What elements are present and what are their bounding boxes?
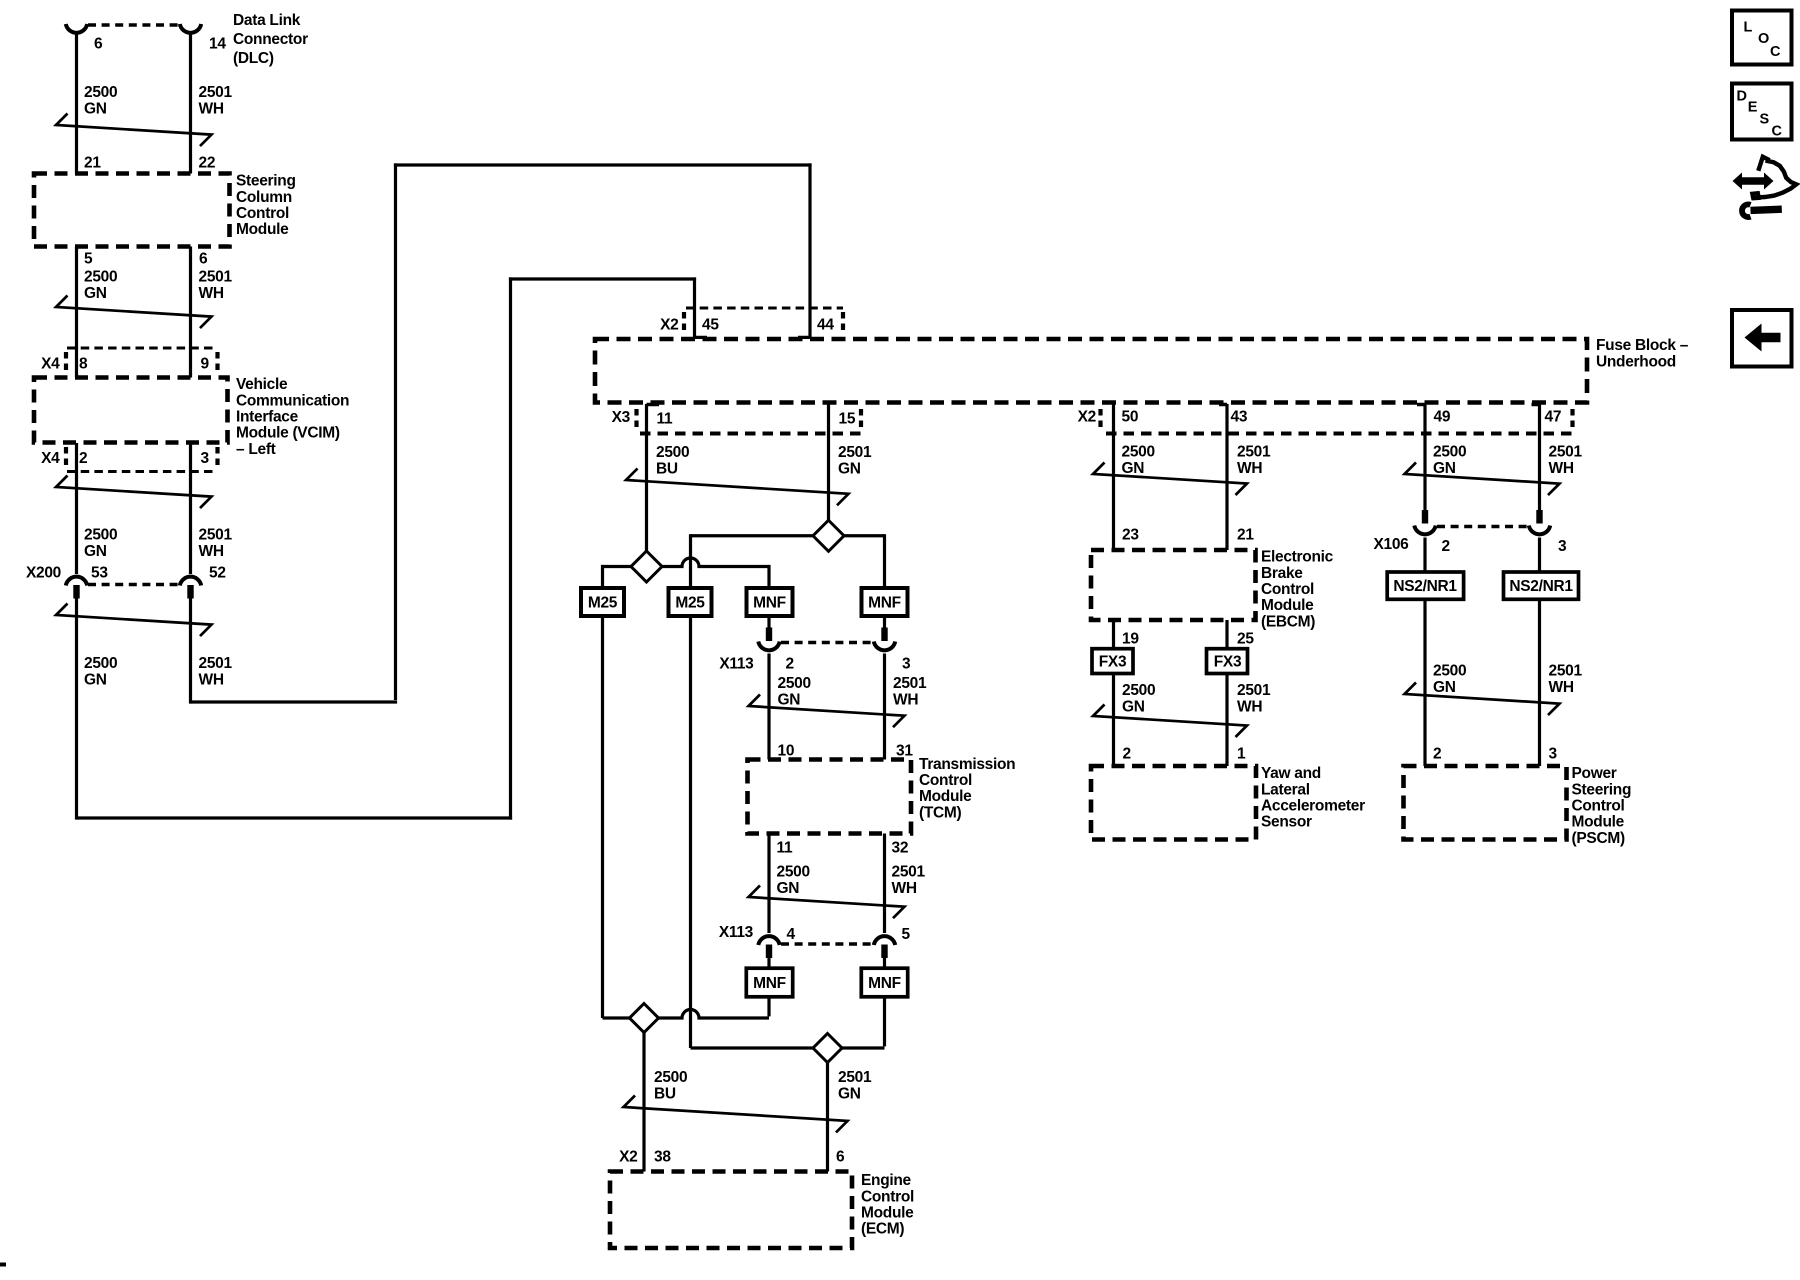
- svg-text:Fuse Block –: Fuse Block –: [1596, 337, 1689, 354]
- svg-text:2501: 2501: [1549, 444, 1583, 461]
- svg-text:Module (VCIM): Module (VCIM): [236, 425, 340, 442]
- wire 2501 GN splice to ECM: [826, 1063, 829, 1172]
- svg-text:Data Link: Data Link: [233, 12, 301, 29]
- svg-text:38: 38: [654, 1149, 671, 1166]
- svg-text:14: 14: [209, 36, 226, 53]
- inline connector X106 dashes: [1437, 525, 1529, 528]
- module box Vehicle Communication Interface Module (VCIM) - Left: [34, 378, 228, 443]
- connector pin X106-3 stub: [1536, 510, 1542, 524]
- connector pin X113-2 cup: [758, 642, 779, 651]
- module box Steering Column Control Module: [34, 174, 230, 247]
- wire 2500 GN vertical run up: [509, 277, 512, 819]
- connector pin X113-3 cup: [874, 642, 895, 651]
- icon box LOC: [1732, 11, 1792, 65]
- svg-text:2: 2: [1433, 746, 1441, 763]
- connector pin X113-2 stub: [766, 628, 772, 642]
- connector row X2 top of fuse block (pins 45 44): [686, 307, 843, 310]
- svg-text:5: 5: [84, 251, 93, 268]
- connector DLC dashed line: [88, 23, 179, 26]
- wire 2500 GN fuse block to X106: [1423, 404, 1426, 511]
- svg-text:Control: Control: [919, 772, 972, 789]
- svg-text:X2: X2: [619, 1149, 637, 1166]
- svg-text:WH: WH: [1549, 679, 1574, 696]
- svg-text:Communication: Communication: [236, 392, 349, 409]
- inline connector X113 dashes: [781, 942, 873, 945]
- inline connector NS2/NR1: [1387, 572, 1463, 599]
- svg-text:Underhood: Underhood: [1596, 353, 1676, 370]
- svg-text:4: 4: [787, 926, 796, 943]
- svg-text:Sensor: Sensor: [1261, 814, 1312, 831]
- svg-text:3: 3: [201, 450, 210, 467]
- svg-text:GN: GN: [838, 1085, 861, 1102]
- wire 2501 GN fuse block to splice: [827, 404, 830, 521]
- svg-text:C: C: [1772, 124, 1783, 140]
- svg-text:6: 6: [199, 251, 208, 268]
- wire EBCM to FX3: [1225, 620, 1228, 650]
- svg-text:11: 11: [657, 411, 673, 428]
- svg-text:X2: X2: [1078, 409, 1096, 426]
- connector pin X113-5 stub: [881, 945, 887, 959]
- wire 2500 GN X113 to TCM: [767, 654, 770, 760]
- wire splice S2 to MNF branch with hop: [662, 558, 769, 567]
- svg-text:Accelerometer: Accelerometer: [1261, 798, 1365, 815]
- svg-text:Electronic: Electronic: [1261, 549, 1334, 566]
- splice S1 (2501 GN): [813, 520, 844, 551]
- twisted pair symbol: [624, 1096, 848, 1133]
- connector pin X113-3 stub: [881, 628, 887, 642]
- svg-text:Lateral: Lateral: [1261, 781, 1310, 798]
- svg-text:E: E: [1748, 99, 1758, 115]
- wire 2500 GN fuse block to EBCM: [1112, 404, 1115, 550]
- svg-text:Module: Module: [1261, 597, 1314, 614]
- svg-text:6: 6: [94, 36, 103, 53]
- wire 2500 GN FX3 to yaw sensor: [1112, 674, 1115, 767]
- svg-text:Vehicle: Vehicle: [236, 376, 288, 393]
- icon box DESC: [1732, 84, 1792, 140]
- svg-text:25: 25: [1237, 631, 1254, 648]
- wire 2500 BU fuse block to splice: [645, 404, 648, 551]
- wire 2501 WH X200 down: [189, 599, 192, 704]
- wire 2501 WH VCIM to X200: [189, 443, 192, 574]
- svg-text:3: 3: [1549, 746, 1558, 763]
- svg-text:Interface: Interface: [236, 409, 299, 426]
- row foot at pin45: [686, 307, 695, 310]
- svg-text:10: 10: [778, 743, 795, 760]
- splice S4 (2501 GN): [813, 1034, 842, 1063]
- svg-text:GN: GN: [1433, 679, 1456, 696]
- wire 2501 WH fuse block to X106: [1538, 404, 1541, 511]
- svg-text:1: 1: [1237, 746, 1246, 763]
- connector pin X200-52 stub: [187, 585, 193, 599]
- svg-text:GN: GN: [777, 880, 800, 897]
- wire splice S1 to MNF branch: [844, 534, 885, 537]
- row foot right of pin11: [647, 403, 660, 407]
- wire MNF down: [883, 997, 886, 1047]
- svg-text:WH: WH: [199, 285, 224, 302]
- svg-text:Yaw and: Yaw and: [1261, 765, 1321, 782]
- module box Engine Control Module (ECM): [610, 1172, 852, 1249]
- wire down to MNF: [883, 534, 886, 589]
- svg-text:X200: X200: [26, 565, 61, 582]
- svg-text:C: C: [1770, 44, 1781, 60]
- svg-text:X113: X113: [719, 656, 754, 673]
- svg-text:2500: 2500: [777, 864, 810, 881]
- svg-text:M25: M25: [588, 594, 618, 611]
- svg-text:NS2/NR1: NS2/NR1: [1393, 578, 1457, 595]
- connector pin X113-4 stub: [766, 945, 772, 959]
- inline connector MNF: [861, 968, 907, 997]
- icon box back arrow: [1732, 310, 1792, 367]
- svg-text:2501: 2501: [838, 1069, 872, 1086]
- svg-text:Steering: Steering: [1572, 781, 1632, 798]
- wire 2501 WH fuse block to EBCM: [1225, 404, 1228, 550]
- wire 2500 GN down to fuse block pin 45: [693, 277, 696, 339]
- svg-text:GN: GN: [778, 691, 801, 708]
- svg-text:9: 9: [201, 356, 210, 373]
- wire splice S3 to MNF with hop: [659, 1010, 770, 1019]
- svg-text:44: 44: [817, 317, 834, 334]
- svg-text:43: 43: [1231, 409, 1248, 426]
- wire 2500 GN SCCM to VCIM: [75, 247, 78, 378]
- wire 2501 WH FX3 to yaw sensor: [1225, 674, 1228, 767]
- svg-text:GN: GN: [1122, 460, 1145, 477]
- svg-text:52: 52: [209, 565, 226, 582]
- twisted pair symbol: [56, 296, 212, 329]
- svg-text:32: 32: [892, 840, 909, 857]
- module box Power Steering Control Module (PSCM): [1404, 766, 1567, 840]
- svg-text:2500: 2500: [84, 269, 117, 286]
- wire down to MNF: [767, 565, 770, 589]
- wire X106 to NS2/NR1: [1423, 538, 1426, 574]
- svg-text:X113: X113: [719, 924, 754, 941]
- connector pin X113-4 cup: [758, 936, 779, 945]
- wire 2501 WH down to fuse block pin 44: [808, 163, 811, 339]
- connector pin DLC-14 cup: [180, 24, 201, 33]
- svg-text:2501: 2501: [199, 527, 233, 544]
- wire M25 down long run: [689, 617, 692, 1048]
- inline connector M25: [581, 588, 624, 616]
- svg-text:2500: 2500: [654, 1069, 687, 1086]
- wire 2500 GN horizontal run: [77, 816, 513, 819]
- inline connector X200: [88, 583, 179, 586]
- svg-text:S: S: [1760, 112, 1770, 128]
- svg-text:WH: WH: [892, 880, 917, 897]
- stray mark bottom left: [0, 1263, 6, 1267]
- wire X113 to MNF: [767, 958, 770, 970]
- svg-text:2500: 2500: [84, 527, 117, 544]
- svg-text:6: 6: [836, 1149, 845, 1166]
- row foot left of pin50: [1106, 432, 1114, 436]
- splice S2 (2500 BU): [631, 551, 662, 582]
- wire splice S2 to M25 branch: [603, 565, 632, 568]
- svg-text:5: 5: [902, 926, 911, 943]
- wire to splice S3: [603, 1016, 630, 1019]
- svg-text:MNF: MNF: [753, 594, 786, 611]
- svg-text:2501: 2501: [199, 655, 233, 672]
- svg-text:X4: X4: [41, 356, 60, 373]
- svg-text:3: 3: [902, 656, 911, 673]
- module box Fuse Block - Underhood: [595, 339, 1587, 403]
- wire 2501 WH TCM to X113: [883, 834, 886, 934]
- svg-text:2500: 2500: [84, 84, 117, 101]
- connector row X4 bottom of VCIM: [67, 470, 213, 473]
- svg-text:21: 21: [1237, 527, 1254, 544]
- wire X113 to MNF: [883, 958, 886, 970]
- icon data communication with scan tool: [1733, 173, 1774, 190]
- svg-text:GN: GN: [84, 285, 107, 302]
- svg-text:21: 21: [84, 155, 101, 172]
- wire M25 down long run: [601, 617, 604, 1018]
- svg-text:2: 2: [1442, 538, 1450, 555]
- module box Yaw and Lateral Accelerometer Sensor: [1091, 766, 1256, 840]
- svg-text:Control: Control: [1261, 581, 1314, 598]
- wire 2501 WH top horizontal run: [394, 163, 812, 166]
- twisted pair symbol: [1093, 705, 1247, 738]
- svg-text:(TCM): (TCM): [919, 804, 962, 821]
- connector pin X200-53 stub: [73, 585, 79, 599]
- module box Transmission Control Module (TCM): [748, 760, 912, 834]
- svg-text:47: 47: [1545, 409, 1562, 426]
- twisted pair symbol: [626, 469, 849, 506]
- connector row X2 below fuse block (pins 50 43 49 47): [1106, 432, 1573, 436]
- inline connector MNF: [746, 968, 792, 997]
- svg-text:50: 50: [1122, 409, 1139, 426]
- inline connector MNF: [747, 588, 793, 616]
- svg-text:WH: WH: [1237, 460, 1262, 477]
- wire 2501 WH vertical run up: [394, 163, 397, 700]
- connector row X3 below fuse block (pins 11 15): [640, 432, 861, 436]
- box foot left of pin49: [1417, 403, 1425, 407]
- box foot left of pin47: [1532, 403, 1540, 407]
- svg-text:GN: GN: [84, 671, 107, 688]
- svg-text:Module: Module: [861, 1205, 914, 1222]
- svg-text:WH: WH: [1549, 460, 1574, 477]
- wire 2501 WH NS2/NR1 to PSCM: [1538, 600, 1541, 766]
- svg-text:2500: 2500: [1122, 682, 1155, 699]
- inline connector M25: [669, 588, 712, 616]
- connector row X4 top of VCIM: [67, 347, 213, 350]
- svg-text:Control: Control: [1572, 798, 1625, 815]
- svg-text:D: D: [1737, 89, 1747, 105]
- svg-text:2500: 2500: [778, 675, 811, 692]
- svg-text:23: 23: [1122, 527, 1139, 544]
- wire splice S1 to M25 branch: [691, 534, 814, 537]
- connector pin X200-53 cup: [66, 577, 87, 586]
- svg-text:Engine: Engine: [861, 1172, 912, 1189]
- twisted pair symbol: [749, 886, 905, 919]
- wire 2500 GN NS2/NR1 to PSCM: [1423, 600, 1426, 766]
- svg-text:2500: 2500: [1433, 663, 1466, 680]
- svg-text:31: 31: [896, 743, 913, 760]
- wire MNF down: [767, 997, 770, 1017]
- svg-text:(DLC): (DLC): [233, 50, 274, 67]
- wire 2501 WH X113 to TCM: [883, 654, 886, 760]
- connector pin X200-52 cup: [180, 577, 201, 586]
- svg-text:GN: GN: [838, 460, 861, 477]
- svg-text:WH: WH: [199, 100, 224, 117]
- svg-text:MNF: MNF: [868, 975, 901, 992]
- svg-text:Control: Control: [236, 205, 289, 222]
- inline connector NS2/NR1: [1504, 572, 1579, 599]
- wire down to M25: [689, 534, 692, 589]
- svg-text:FX3: FX3: [1214, 654, 1242, 671]
- inline connector X113 dashes: [781, 641, 873, 644]
- svg-text:2501: 2501: [199, 84, 233, 101]
- svg-text:(ECM): (ECM): [861, 1221, 904, 1238]
- twisted pair symbol: [1405, 683, 1560, 716]
- svg-text:2501: 2501: [838, 444, 872, 461]
- twisted pair symbol: [56, 114, 212, 147]
- connector pin X113-5 cup: [874, 936, 895, 945]
- svg-text:WH: WH: [1237, 698, 1262, 715]
- svg-text:49: 49: [1434, 409, 1451, 426]
- connector pin X106-2 stub: [1422, 510, 1428, 524]
- wire 2500 GN DLC to SCCM: [75, 34, 78, 174]
- inline connector FX3: [1092, 649, 1133, 674]
- svg-text:2500: 2500: [656, 444, 689, 461]
- svg-text:GN: GN: [84, 543, 107, 560]
- svg-text:– Left: – Left: [236, 441, 276, 458]
- svg-text:15: 15: [839, 411, 856, 428]
- wire 2500 GN horizontal run to pin 45: [509, 277, 696, 280]
- connector pin DLC-6 cup: [66, 24, 87, 33]
- svg-text:2501: 2501: [892, 864, 926, 881]
- svg-text:22: 22: [199, 155, 216, 172]
- svg-text:Steering: Steering: [236, 173, 296, 190]
- svg-text:MNF: MNF: [868, 594, 901, 611]
- svg-text:L: L: [1744, 20, 1753, 36]
- svg-text:(EBCM): (EBCM): [1261, 613, 1315, 630]
- svg-text:Module: Module: [1572, 814, 1625, 831]
- wire 2500 GN VCIM to X200: [75, 443, 78, 574]
- wire MNF to splice S4: [842, 1046, 885, 1049]
- svg-text:2: 2: [79, 450, 87, 467]
- twisted pair symbol: [56, 476, 212, 509]
- svg-text:2501: 2501: [1237, 682, 1271, 699]
- svg-text:2501: 2501: [893, 675, 927, 692]
- svg-text:Control: Control: [861, 1188, 914, 1205]
- box foot left of pin43: [1219, 403, 1227, 407]
- svg-text:Transmission: Transmission: [919, 756, 1015, 773]
- svg-text:M25: M25: [675, 594, 705, 611]
- connector pin X106-3 cup: [1529, 526, 1550, 535]
- svg-text:NS2/NR1: NS2/NR1: [1509, 578, 1573, 595]
- wire 2500 GN X200 down: [75, 599, 78, 820]
- twisted pair symbol: [1093, 463, 1247, 496]
- svg-text:2501: 2501: [199, 269, 233, 286]
- svg-text:2: 2: [1123, 746, 1131, 763]
- svg-text:X2: X2: [660, 317, 678, 334]
- inline connector FX3: [1207, 649, 1248, 674]
- wire to splice S4: [691, 1046, 814, 1049]
- wire MNF to X113: [883, 617, 886, 629]
- wire MNF to X113: [767, 617, 770, 629]
- svg-text:8: 8: [79, 356, 88, 373]
- svg-text:53: 53: [91, 565, 108, 582]
- wire 2501 WH SCCM to VCIM: [189, 247, 192, 378]
- svg-text:GN: GN: [1122, 698, 1145, 715]
- svg-text:11: 11: [777, 840, 793, 857]
- svg-text:BU: BU: [656, 460, 678, 477]
- svg-text:BU: BU: [654, 1085, 676, 1102]
- twisted pair symbol: [749, 695, 905, 728]
- svg-text:WH: WH: [199, 543, 224, 560]
- svg-text:X3: X3: [612, 409, 631, 426]
- twisted pair symbol: [56, 604, 212, 637]
- box foot right of pin45: [695, 336, 707, 340]
- svg-text:(PSCM): (PSCM): [1572, 830, 1625, 847]
- svg-text:FX3: FX3: [1099, 654, 1127, 671]
- svg-text:Brake: Brake: [1261, 565, 1303, 582]
- wire EBCM to FX3: [1112, 620, 1115, 650]
- svg-text:19: 19: [1122, 631, 1139, 648]
- splice S3 (2500 BU): [630, 1004, 659, 1033]
- svg-text:2: 2: [786, 656, 794, 673]
- svg-text:GN: GN: [1433, 460, 1456, 477]
- svg-text:WH: WH: [893, 691, 918, 708]
- wire 2500 GN TCM to X113: [767, 834, 770, 934]
- svg-text:X4: X4: [41, 450, 60, 467]
- svg-text:Module: Module: [236, 221, 289, 238]
- svg-text:3: 3: [1558, 538, 1567, 555]
- svg-text:GN: GN: [84, 100, 107, 117]
- twisted pair symbol: [1405, 463, 1560, 496]
- svg-text:2501: 2501: [1549, 663, 1583, 680]
- wire down to M25: [601, 565, 604, 589]
- connector pin X106-2 cup: [1414, 526, 1435, 535]
- box foot left of pin44: [798, 336, 810, 340]
- module box Electronic Brake Control Module (EBCM): [1091, 550, 1256, 620]
- wire 2501 WH horizontal run: [191, 700, 398, 703]
- svg-text:Column: Column: [236, 189, 292, 206]
- wire X106 to NS2/NR1: [1538, 538, 1541, 574]
- svg-text:WH: WH: [199, 671, 224, 688]
- svg-text:2500: 2500: [84, 655, 117, 672]
- inline connector MNF: [862, 588, 908, 616]
- svg-text:45: 45: [702, 317, 719, 334]
- svg-text:Connector: Connector: [233, 31, 308, 48]
- svg-text:2500: 2500: [1433, 444, 1466, 461]
- svg-text:MNF: MNF: [753, 975, 786, 992]
- icon back arrow: [1745, 324, 1781, 352]
- svg-text:X106: X106: [1374, 536, 1410, 553]
- svg-text:Module: Module: [919, 788, 972, 805]
- wire 2500 BU splice to ECM: [642, 1033, 645, 1172]
- svg-text:Power: Power: [1572, 765, 1617, 782]
- svg-text:2501: 2501: [1237, 444, 1271, 461]
- wire 2501 WH DLC to SCCM: [189, 34, 192, 174]
- svg-text:2500: 2500: [1122, 444, 1155, 461]
- svg-text:O: O: [1758, 31, 1769, 47]
